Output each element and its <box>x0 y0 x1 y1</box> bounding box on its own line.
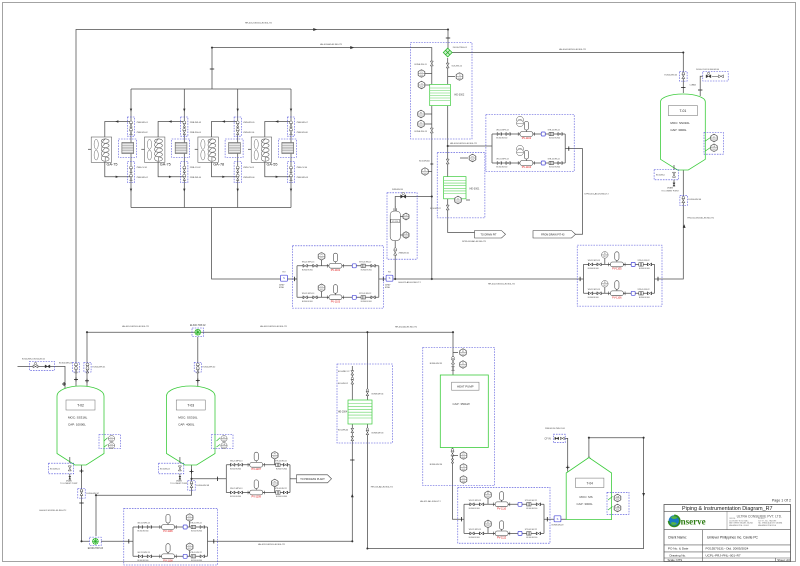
svg-text:ZWB-BV-1B: ZWB-BV-1B <box>392 189 403 191</box>
svg-text:E5NE: E5NE <box>279 287 285 289</box>
svg-text:EL900 EL900: EL900 EL900 <box>361 269 372 271</box>
vessel T-03 <box>167 386 216 465</box>
svg-text:S: S <box>557 517 559 521</box>
svg-text:LG: LG <box>405 233 408 235</box>
svg-text:WV-21 MPV-13: WV-21 MPV-13 <box>230 488 242 490</box>
svg-text:EL900 EL900: EL900 EL900 <box>588 268 599 270</box>
svg-text:STR-05 WV-22: STR-05 WV-22 <box>190 523 202 525</box>
svg-text:BONE-WP-33: BONE-WP-33 <box>372 432 384 434</box>
valve stack top unit 2 <box>181 117 188 136</box>
valve manifold PV-1105/PV-1106 <box>577 245 662 306</box>
valve box ELS00-WP-01 on T-02 feed2 <box>84 362 91 372</box>
heat pump unit <box>440 375 488 448</box>
svg-text:1001: 1001 <box>462 481 466 483</box>
valve stack bottom unit 4 <box>287 162 294 183</box>
svg-text:EL900 EL900: EL900 EL900 <box>496 138 507 140</box>
pipe header HH-002 right part <box>655 170 684 279</box>
svg-text:PV-1108: PV-1108 <box>163 560 173 563</box>
svg-text:WV-21 MPV-13: WV-21 MPV-13 <box>137 523 149 525</box>
HE-2004 section dashed box <box>337 364 392 443</box>
valve stack top unit 1 <box>127 117 134 136</box>
heat pump valve top <box>451 359 454 364</box>
valve stack bottom unit 3 <box>234 162 241 183</box>
svg-text:STR-05 WV-22: STR-05 WV-22 <box>637 289 649 291</box>
svg-text:EL500-TRP-03: EL500-TRP-03 <box>88 548 104 550</box>
HX bank top header <box>131 88 291 90</box>
spec break BONE-WS-49 <box>554 516 561 522</box>
plate heat exchanger unit 2 <box>172 139 190 157</box>
svg-text:1001: 1001 <box>320 289 324 291</box>
flag TO DRAIN PIT <box>475 231 506 238</box>
svg-text:TO PROCESS PLANT: TO PROCESS PLANT <box>300 478 325 481</box>
svg-text:ZWB-WR-05: ZWB-WR-05 <box>243 122 255 124</box>
svg-text:WV-21 MPV-13: WV-21 MPV-13 <box>137 552 149 554</box>
instrument PI 3002d <box>425 113 432 115</box>
valve stack top unit 4 <box>287 117 294 136</box>
svg-text:HH-003-AD-EL900-ITJ: HH-003-AD-EL900-ITJ <box>320 43 342 46</box>
svg-text:1001: 1001 <box>456 201 460 203</box>
svg-text:EL900 EL900: EL900 EL900 <box>496 167 507 169</box>
svg-text:BONE-WV-13: BONE-WV-13 <box>415 131 428 133</box>
plate heat exchanger unit 4 <box>278 139 296 157</box>
svg-text:WV-21 MPV-13: WV-21 MPV-13 <box>496 130 508 132</box>
valve BONE-WP-34 <box>366 391 369 395</box>
svg-text:ELS-WBY-C2: ELS-WBY-C2 <box>338 371 349 373</box>
svg-text:EL900 EL900: EL900 EL900 <box>469 508 480 510</box>
junction ticks <box>681 87 685 89</box>
svg-text:HH-032-AD-EL900-ITJ: HH-032-AD-EL900-ITJ <box>395 326 417 329</box>
svg-text:HH-013-AD-EL900-ITJ: HH-013-AD-EL900-ITJ <box>371 486 393 489</box>
svg-text:ELS00-WR-03: ELS00-WR-03 <box>59 363 73 365</box>
svg-text:1001: 1001 <box>616 509 620 511</box>
vessel T-01 <box>661 94 706 170</box>
instrument TI 3002e <box>425 123 432 125</box>
svg-text:HH-011-AD-5050-ITJ: HH-011-AD-5050-ITJ <box>420 500 441 503</box>
svg-text:1001: 1001 <box>273 457 277 459</box>
svg-text:GA-75: GA-75 <box>160 162 171 166</box>
svg-text:HH-061-SS316L-EL900-ITJ: HH-061-SS316L-EL900-ITJ <box>122 326 149 328</box>
pipe heat pump feed <box>452 332 454 375</box>
svg-text:WV-21 MPV-13: WV-21 MPV-13 <box>469 500 481 502</box>
svg-text:HH-002-SS316L-EL900-ITJ: HH-002-SS316L-EL900-ITJ <box>488 284 515 286</box>
svg-text:UCPL–PRJ–PNL–001–R7: UCPL–PRJ–PNL–001–R7 <box>706 553 741 557</box>
svg-text:STR-05 WV-22: STR-05 WV-22 <box>275 460 287 462</box>
svg-text:1001: 1001 <box>462 457 466 459</box>
svg-text:HE-3001: HE-3001 <box>470 188 480 191</box>
fan-coil unit GA-75 #1 <box>91 137 111 162</box>
svg-text:SLS-WV-12: SLS-WV-12 <box>452 66 463 68</box>
valve stack bottom unit 2 <box>181 162 188 183</box>
svg-text:1001: 1001 <box>461 354 465 356</box>
heat exchanger HE-3001 <box>444 177 466 199</box>
pipe arrow HH-001 <box>313 28 317 31</box>
spec break left of manifold <box>281 275 288 281</box>
svg-text:1001: 1001 <box>486 525 490 527</box>
svg-text:PO15570131– Dtd. 20/05/2024: PO15570131– Dtd. 20/05/2024 <box>706 547 749 551</box>
svg-text:1001: 1001 <box>188 519 192 521</box>
svg-text:1001: 1001 <box>420 86 424 88</box>
svg-text:CAP: 3000L: CAP: 3000L <box>670 128 687 132</box>
svg-text:STR-05 WV-22: STR-05 WV-22 <box>190 552 202 554</box>
valve manifold PV-1107/PV-1109 (no box) <box>225 465 227 493</box>
svg-text:ZWB-BV-01: ZWB-BV-01 <box>399 253 410 255</box>
instrument box T-04 LIA/LSA <box>607 492 629 514</box>
svg-text:ELS00-WP-01: ELS00-WP-01 <box>93 367 107 369</box>
instrument TI heat pump bottom <box>460 464 467 472</box>
svg-text:1001: 1001 <box>712 139 716 141</box>
svg-text:EL900 EL900: EL900 EL900 <box>276 468 287 470</box>
valve ELS-WBY-C2 <box>351 371 354 375</box>
svg-text:1001: 1001 <box>404 218 408 220</box>
valve box DLS00-CV-01/ELS00-WV-04 <box>703 72 728 81</box>
pipe manifold PV1107 exit <box>290 478 297 480</box>
svg-text:ELS00-TRP-02: ELS00-TRP-02 <box>190 325 206 327</box>
svg-text:SLS-WV-A1: SLS-WV-A1 <box>419 160 431 163</box>
svg-text:HH-011-SS316L-EL900-ITJ: HH-011-SS316L-EL900-ITJ <box>687 217 714 219</box>
svg-text:EL900 EL900: EL900 EL900 <box>588 297 599 299</box>
inlet valve group ELS00-WR-01 <box>29 362 54 371</box>
FT section dashed box <box>387 193 417 259</box>
svg-text:MOC: MS: MOC: MS <box>580 495 593 499</box>
pipe header HH-002 mid part <box>379 278 584 280</box>
svg-text:STR-05 WV-22: STR-05 WV-22 <box>548 159 560 161</box>
svg-text:50NE/: 50NE/ <box>385 285 391 287</box>
svg-text:RO: RO <box>283 272 286 274</box>
instrument box T-01 LI/LS <box>704 132 723 154</box>
HX unit 2 coil loop <box>158 122 184 138</box>
vessel T-02 <box>57 386 104 465</box>
valve box ELS00-WV-47 <box>78 488 85 498</box>
svg-text:HH-032-SS316L-EL900-ITJ: HH-032-SS316L-EL900-ITJ <box>258 544 285 546</box>
svg-text:ELS00-WP-02: ELS00-WP-02 <box>203 367 217 369</box>
svg-text:GA-75: GA-75 <box>107 162 118 166</box>
svg-text:ELS00-WR-01 ELS00-BY-02: ELS00-WR-01 ELS00-BY-02 <box>22 358 45 360</box>
svg-text:WV-21 MPV-13: WV-21 MPV-13 <box>302 261 314 263</box>
HX unit 1 main line <box>130 89 132 208</box>
svg-text:ELS00-WV-05: ELS00-WV-05 <box>665 74 679 76</box>
svg-text:PV-1106: PV-1106 <box>612 297 622 300</box>
valve ELS-WV-02b <box>351 380 354 384</box>
svg-text:CAP: 10000L: CAP: 10000L <box>68 423 86 427</box>
svg-text:1001: 1001 <box>320 258 324 260</box>
svg-text:1001: 1001 <box>603 256 607 258</box>
svg-text:T-04: T-04 <box>587 482 594 486</box>
svg-text:DRAIN: DRAIN <box>667 187 674 190</box>
svg-text:CAP: 350kW: CAP: 350kW <box>453 402 470 406</box>
svg-text:Piping & Instrumentation Di: Piping & Instrumentation Diagram_R7 <box>682 506 773 512</box>
strainer-trap ELS00-TRP-03 <box>90 537 102 545</box>
svg-text:DRAIN: DRAIN <box>66 479 73 482</box>
svg-text:CAP: 3000L: CAP: 3000L <box>577 502 594 506</box>
valve stack bottom unit 1 <box>127 162 134 183</box>
svg-text:EL900 EL900: EL900 EL900 <box>137 560 148 562</box>
plate heat exchanger unit 1 <box>118 139 136 157</box>
HX unit 3 main line <box>237 89 239 208</box>
svg-text:PV-1104: PV-1104 <box>522 166 532 169</box>
svg-text:TO LOWEST POINT: TO LOWEST POINT <box>60 483 78 485</box>
svg-text:STR-05 WV-22: STR-05 WV-22 <box>359 261 371 263</box>
svg-text:HR-003-SS316L-EL900-ITJ: HR-003-SS316L-EL900-ITJ <box>450 143 477 145</box>
svg-text:HH-004-SS316L-EL900-ITJ: HH-004-SS316L-EL900-ITJ <box>559 49 586 51</box>
svg-text:HH-021-AD-EL900-ITJ: HH-021-AD-EL900-ITJ <box>399 281 421 284</box>
fan-coil unit GA-55 #4 <box>251 137 271 162</box>
svg-text:T-03: T-03 <box>187 404 194 408</box>
svg-text:BONE-WV-36: BONE-WV-36 <box>430 464 443 466</box>
drain valve ELS-BV-02 <box>159 463 184 474</box>
svg-text:EL900 EL900: EL900 EL900 <box>302 301 313 303</box>
svg-text:EL900 EL900: EL900 EL900 <box>302 269 313 271</box>
pipe HH-001 top header with riser to T-02 <box>76 30 448 389</box>
HX unit 4 coil loop <box>265 122 291 138</box>
HE-3002 section dashed box <box>411 43 473 140</box>
svg-text:EL900 EL900: EL900 EL900 <box>137 531 148 533</box>
svg-text:ZWB-WR-02: ZWB-WR-02 <box>137 177 149 179</box>
valve box ELS00-WV-06 <box>680 195 687 205</box>
svg-text:HEAT PUMP: HEAT PUMP <box>457 385 474 389</box>
svg-text:S: S <box>389 276 391 280</box>
svg-text:ELS-BV-01: ELS-BV-01 <box>50 468 61 470</box>
pipe arrow T-04 drop <box>642 493 645 497</box>
svg-text:T-01: T-01 <box>680 109 687 113</box>
svg-text:PV-1102: PV-1102 <box>522 137 532 140</box>
instrument PI 3001b <box>469 154 476 162</box>
svg-text:HH-001-SS316L-EL900-ITJ: HH-001-SS316L-EL900-ITJ <box>245 23 272 25</box>
pipe arrow HE2004 up <box>351 494 354 498</box>
svg-text:ZWB-WV-04: ZWB-WV-04 <box>190 132 202 134</box>
svg-text:1001: 1001 <box>273 484 277 486</box>
svg-text:DLI00-TRH-01: DLI00-TRH-01 <box>453 47 468 49</box>
svg-text:1001: 1001 <box>110 440 114 442</box>
svg-text:ZWB-WV-06: ZWB-WV-06 <box>243 132 255 134</box>
svg-text:1001: 1001 <box>222 440 226 442</box>
svg-text:PV-1106: PV-1106 <box>163 530 173 533</box>
instrument LG b <box>400 234 403 236</box>
pipe T-02 inlet left <box>18 366 66 390</box>
svg-text:1001: 1001 <box>712 149 716 151</box>
svg-text:HH-062-SS316L-EL900-ITJ: HH-062-SS316L-EL900-ITJ <box>260 326 287 328</box>
svg-text:1001: 1001 <box>404 236 408 238</box>
logo Conserve <box>669 515 680 526</box>
pipe FT top connection <box>395 197 432 212</box>
pipe HE-3002 right column <box>448 58 475 233</box>
fan-coil unit GA-78 #3 <box>198 137 218 162</box>
svg-text:EL900 EL900: EL900 EL900 <box>191 560 202 562</box>
pipe T-02 feed right <box>86 332 88 390</box>
flag TO PROCESS PLANT <box>297 475 332 483</box>
svg-text:PV-1112: PV-1112 <box>497 537 507 540</box>
svg-text:HH-001-SS316L-EL900-ITJ: HH-001-SS316L-EL900-ITJ <box>39 510 66 512</box>
instrument TI 3002c <box>448 76 455 78</box>
pipe HH-004 diamond to T-01 <box>452 52 683 54</box>
svg-text:WV-21 MPV-13: WV-21 MPV-13 <box>496 159 508 161</box>
pipe HH-003 line B to HE-3002 left column down to header <box>212 48 432 279</box>
svg-text:EL900 EL900: EL900 EL900 <box>230 468 241 470</box>
svg-text:BONE-WP-34: BONE-WP-34 <box>372 393 384 395</box>
valve BONE-WV-11 <box>430 61 433 66</box>
fan-coil unit GA-75 #2 <box>145 137 165 162</box>
vessel T-04 <box>566 458 611 520</box>
valve SLS-WV-12 <box>446 63 449 68</box>
svg-text:CF IN: CF IN <box>545 437 552 440</box>
svg-text:ZWB-WV-02: ZWB-WV-02 <box>137 132 149 134</box>
svg-text:DRAIN: DRAIN <box>176 479 183 482</box>
svg-text:LSA: LSA <box>616 505 620 508</box>
svg-text:EL900 EL900: EL900 EL900 <box>549 167 560 169</box>
svg-text:WV-21 MPV-13: WV-21 MPV-13 <box>588 260 600 262</box>
pipe T-03 feed <box>197 337 199 390</box>
svg-text:FROM DRAIN PIT 43: FROM DRAIN PIT 43 <box>541 233 565 236</box>
junction dots <box>447 29 449 31</box>
valve ZWB-BV-01 <box>394 250 397 255</box>
svg-text:ZWB-WR-03: ZWB-WR-03 <box>190 122 202 124</box>
svg-text:GA-55: GA-55 <box>267 162 278 166</box>
svg-text:MOC: SS316L: MOC: SS316L <box>68 416 88 420</box>
pipe branch to PV manifold <box>448 145 486 147</box>
strainer-trap ELS00-TRP-02 <box>192 328 204 336</box>
svg-text:ZWB-WR-08: ZWB-WR-08 <box>297 177 309 179</box>
svg-text:Scale: NTS: Scale: NTS <box>668 558 683 562</box>
svg-text:CAP: 4000L: CAP: 4000L <box>178 423 195 427</box>
svg-text:PV-1109: PV-1109 <box>252 496 262 499</box>
svg-text:PV-1107: PV-1107 <box>252 468 262 471</box>
svg-text:ZWB-CV-03: ZWB-CV-03 <box>243 167 255 169</box>
svg-text:STR-05 WV-22: STR-05 WV-22 <box>548 130 560 132</box>
pipe manifold PV1110 exit to T-04 <box>544 518 566 520</box>
instrument TI 3001c <box>466 199 470 201</box>
svg-text:ZWB-WV-08: ZWB-WV-08 <box>297 132 309 134</box>
HX unit 3 coil loop <box>212 122 238 138</box>
instrument box T-03 LI/LS <box>212 435 234 449</box>
svg-text:FT-120: FT-120 <box>392 221 398 223</box>
svg-text:1001: 1001 <box>462 469 466 471</box>
pipe manifold exit to FROM-DRAIN flag <box>565 149 582 235</box>
svg-text:BONE-WV-35: BONE-WV-35 <box>430 363 443 365</box>
svg-text:1001: 1001 <box>461 366 465 368</box>
svg-text:ELS00-WV-48: ELS00-WV-48 <box>197 485 211 487</box>
vessel FT-1205 <box>390 211 400 241</box>
svg-text:S: S <box>283 276 285 280</box>
instrument TI 3001a <box>428 171 432 173</box>
svg-text:ELS-WV-02: ELS-WV-02 <box>338 383 348 385</box>
svg-text:1001: 1001 <box>222 447 226 449</box>
HX unit 4 main line <box>290 89 292 208</box>
valve SLS-WV-C2 <box>446 205 449 210</box>
svg-text:STR-05 WV-22: STR-05 WV-22 <box>637 260 649 262</box>
svg-text:DPW-001-AD-EL900-ITJ: DPW-001-AD-EL900-ITJ <box>585 193 609 196</box>
svg-text:TO DRAIN PIT: TO DRAIN PIT <box>480 233 497 236</box>
svg-text:MOC: SS316L: MOC: SS316L <box>178 416 198 420</box>
svg-text:TO LOWEST POINT: TO LOWEST POINT <box>170 483 188 485</box>
svg-text:MAHARASHTRA - 400605: MAHARASHTRA - 400605 <box>729 524 749 527</box>
pipe T-03 drain main <box>96 465 192 536</box>
svg-text:ELS-WR-04: ELS-WR-04 <box>338 430 348 432</box>
svg-text:1001: 1001 <box>458 78 462 80</box>
svg-text:1001: 1001 <box>423 173 427 175</box>
strainer-trap DLI00-TRH-01 <box>443 48 452 57</box>
instrument box T-02 LI/LS <box>99 435 121 449</box>
svg-text:STR-05 WV-22: STR-05 WV-22 <box>359 293 371 295</box>
svg-text:1001: 1001 <box>110 447 114 449</box>
valve ELS-WR-05 <box>351 436 354 440</box>
HX bank bottom header <box>131 207 291 209</box>
svg-text:CLEAN: CLEAN <box>690 84 697 87</box>
svg-text:EL900 EL900: EL900 EL900 <box>549 138 560 140</box>
svg-text:MOC: SS316L: MOC: SS316L <box>670 121 690 125</box>
heat exchanger HE-2004 <box>348 400 372 424</box>
valve box ELS00-WV-48 <box>188 481 195 491</box>
valve manifold PV-1101/PV-1103 <box>292 246 383 308</box>
svg-text:ELS-BV-0: ELS-BV-0 <box>656 175 666 177</box>
svg-text:PV-1110: PV-1110 <box>497 508 507 511</box>
svg-text:1001: 1001 <box>616 499 620 501</box>
manifold PV-1101 entry stubs <box>295 278 297 280</box>
pipe T-03 to manifold <box>192 478 227 480</box>
svg-text:EL900 EL900: EL900 EL900 <box>191 531 202 533</box>
svg-text:STR-05 WV-22: STR-05 WV-22 <box>525 529 537 531</box>
svg-text:BONE-WV-11: BONE-WV-11 <box>415 64 428 66</box>
plate heat exchanger unit 3 <box>225 139 243 157</box>
svg-text:nserve: nserve <box>681 517 706 527</box>
svg-text:ELS-BV-02: ELS-BV-02 <box>160 468 171 470</box>
svg-text:1001: 1001 <box>188 548 192 550</box>
pipe HE-2004 left column to bottom header <box>208 366 353 541</box>
svg-text:ZWB-WR-04: ZWB-WR-04 <box>190 177 202 179</box>
svg-text:PV-1101: PV-1101 <box>331 269 341 272</box>
svg-text:1001: 1001 <box>486 496 490 498</box>
svg-text:EL900 EL900: EL900 EL900 <box>526 508 537 510</box>
svg-text:1001: 1001 <box>419 115 423 117</box>
valve box ELS00-WR-03 on T-02 feed <box>72 362 79 372</box>
svg-text:1001: 1001 <box>471 159 475 161</box>
svg-text:Page 1 Of 2: Page 1 Of 2 <box>772 499 791 503</box>
svg-text:EL900 EL900: EL900 EL900 <box>639 268 650 270</box>
svg-text:ZWB-WV-30 ZWB-CV-01: ZWB-WV-30 ZWB-CV-01 <box>545 428 565 430</box>
svg-text:50NE/: 50NE/ <box>279 285 285 287</box>
pipe header HH-002 left part <box>212 208 297 280</box>
svg-text:PV-1105: PV-1105 <box>612 268 622 271</box>
valve manifold PV-1110/PV-1112 <box>458 487 550 543</box>
heat exchanger HE-3002 <box>430 84 451 105</box>
pipe header HH-061 332 <box>87 331 453 333</box>
pipe HE-2004 right column loop to T-04 <box>367 332 643 548</box>
pipe heat pump return <box>453 448 465 520</box>
svg-text:Sheet: A3: Sheet: A3 <box>777 558 790 562</box>
svg-text:PO No. & Date: PO No. & Date <box>668 547 689 551</box>
svg-text:T-02: T-02 <box>77 404 84 408</box>
svg-text:1001: 1001 <box>419 125 423 127</box>
instrument LG a <box>400 216 403 218</box>
svg-text:LG: LG <box>405 215 408 217</box>
heat pump valve bottom <box>451 451 454 456</box>
svg-text:ZWB-WR-01: ZWB-WR-01 <box>137 122 149 124</box>
svg-text:GA-78: GA-78 <box>213 162 224 166</box>
svg-text:SLS-WV-C2: SLS-WV-C2 <box>430 208 442 210</box>
svg-text:ZWB-CV-04: ZWB-CV-04 <box>297 167 309 169</box>
svg-text:ZWB-WR-06: ZWB-WR-06 <box>243 177 255 179</box>
title block frame <box>664 505 791 562</box>
instrument PI 3002a <box>425 73 432 75</box>
instrument TI 3002b <box>425 84 432 86</box>
svg-text:1001: 1001 <box>420 75 424 77</box>
valve on FT top line <box>401 195 406 198</box>
svg-text:1001: 1001 <box>603 285 607 287</box>
svg-text:WV-21 MPV-13: WV-21 MPV-13 <box>469 529 481 531</box>
svg-text:MAHARASHTRA INDIA: MAHARASHTRA INDIA <box>758 524 777 527</box>
pipe arrow T-01 feed <box>683 224 686 228</box>
pipe arrow HH-003 <box>350 46 354 49</box>
drain valve ELS-BV-01 <box>48 463 73 474</box>
svg-text:Unilever Philippines Inc. Cavi: Unilever Philippines Inc. Cavite PC <box>707 535 759 539</box>
